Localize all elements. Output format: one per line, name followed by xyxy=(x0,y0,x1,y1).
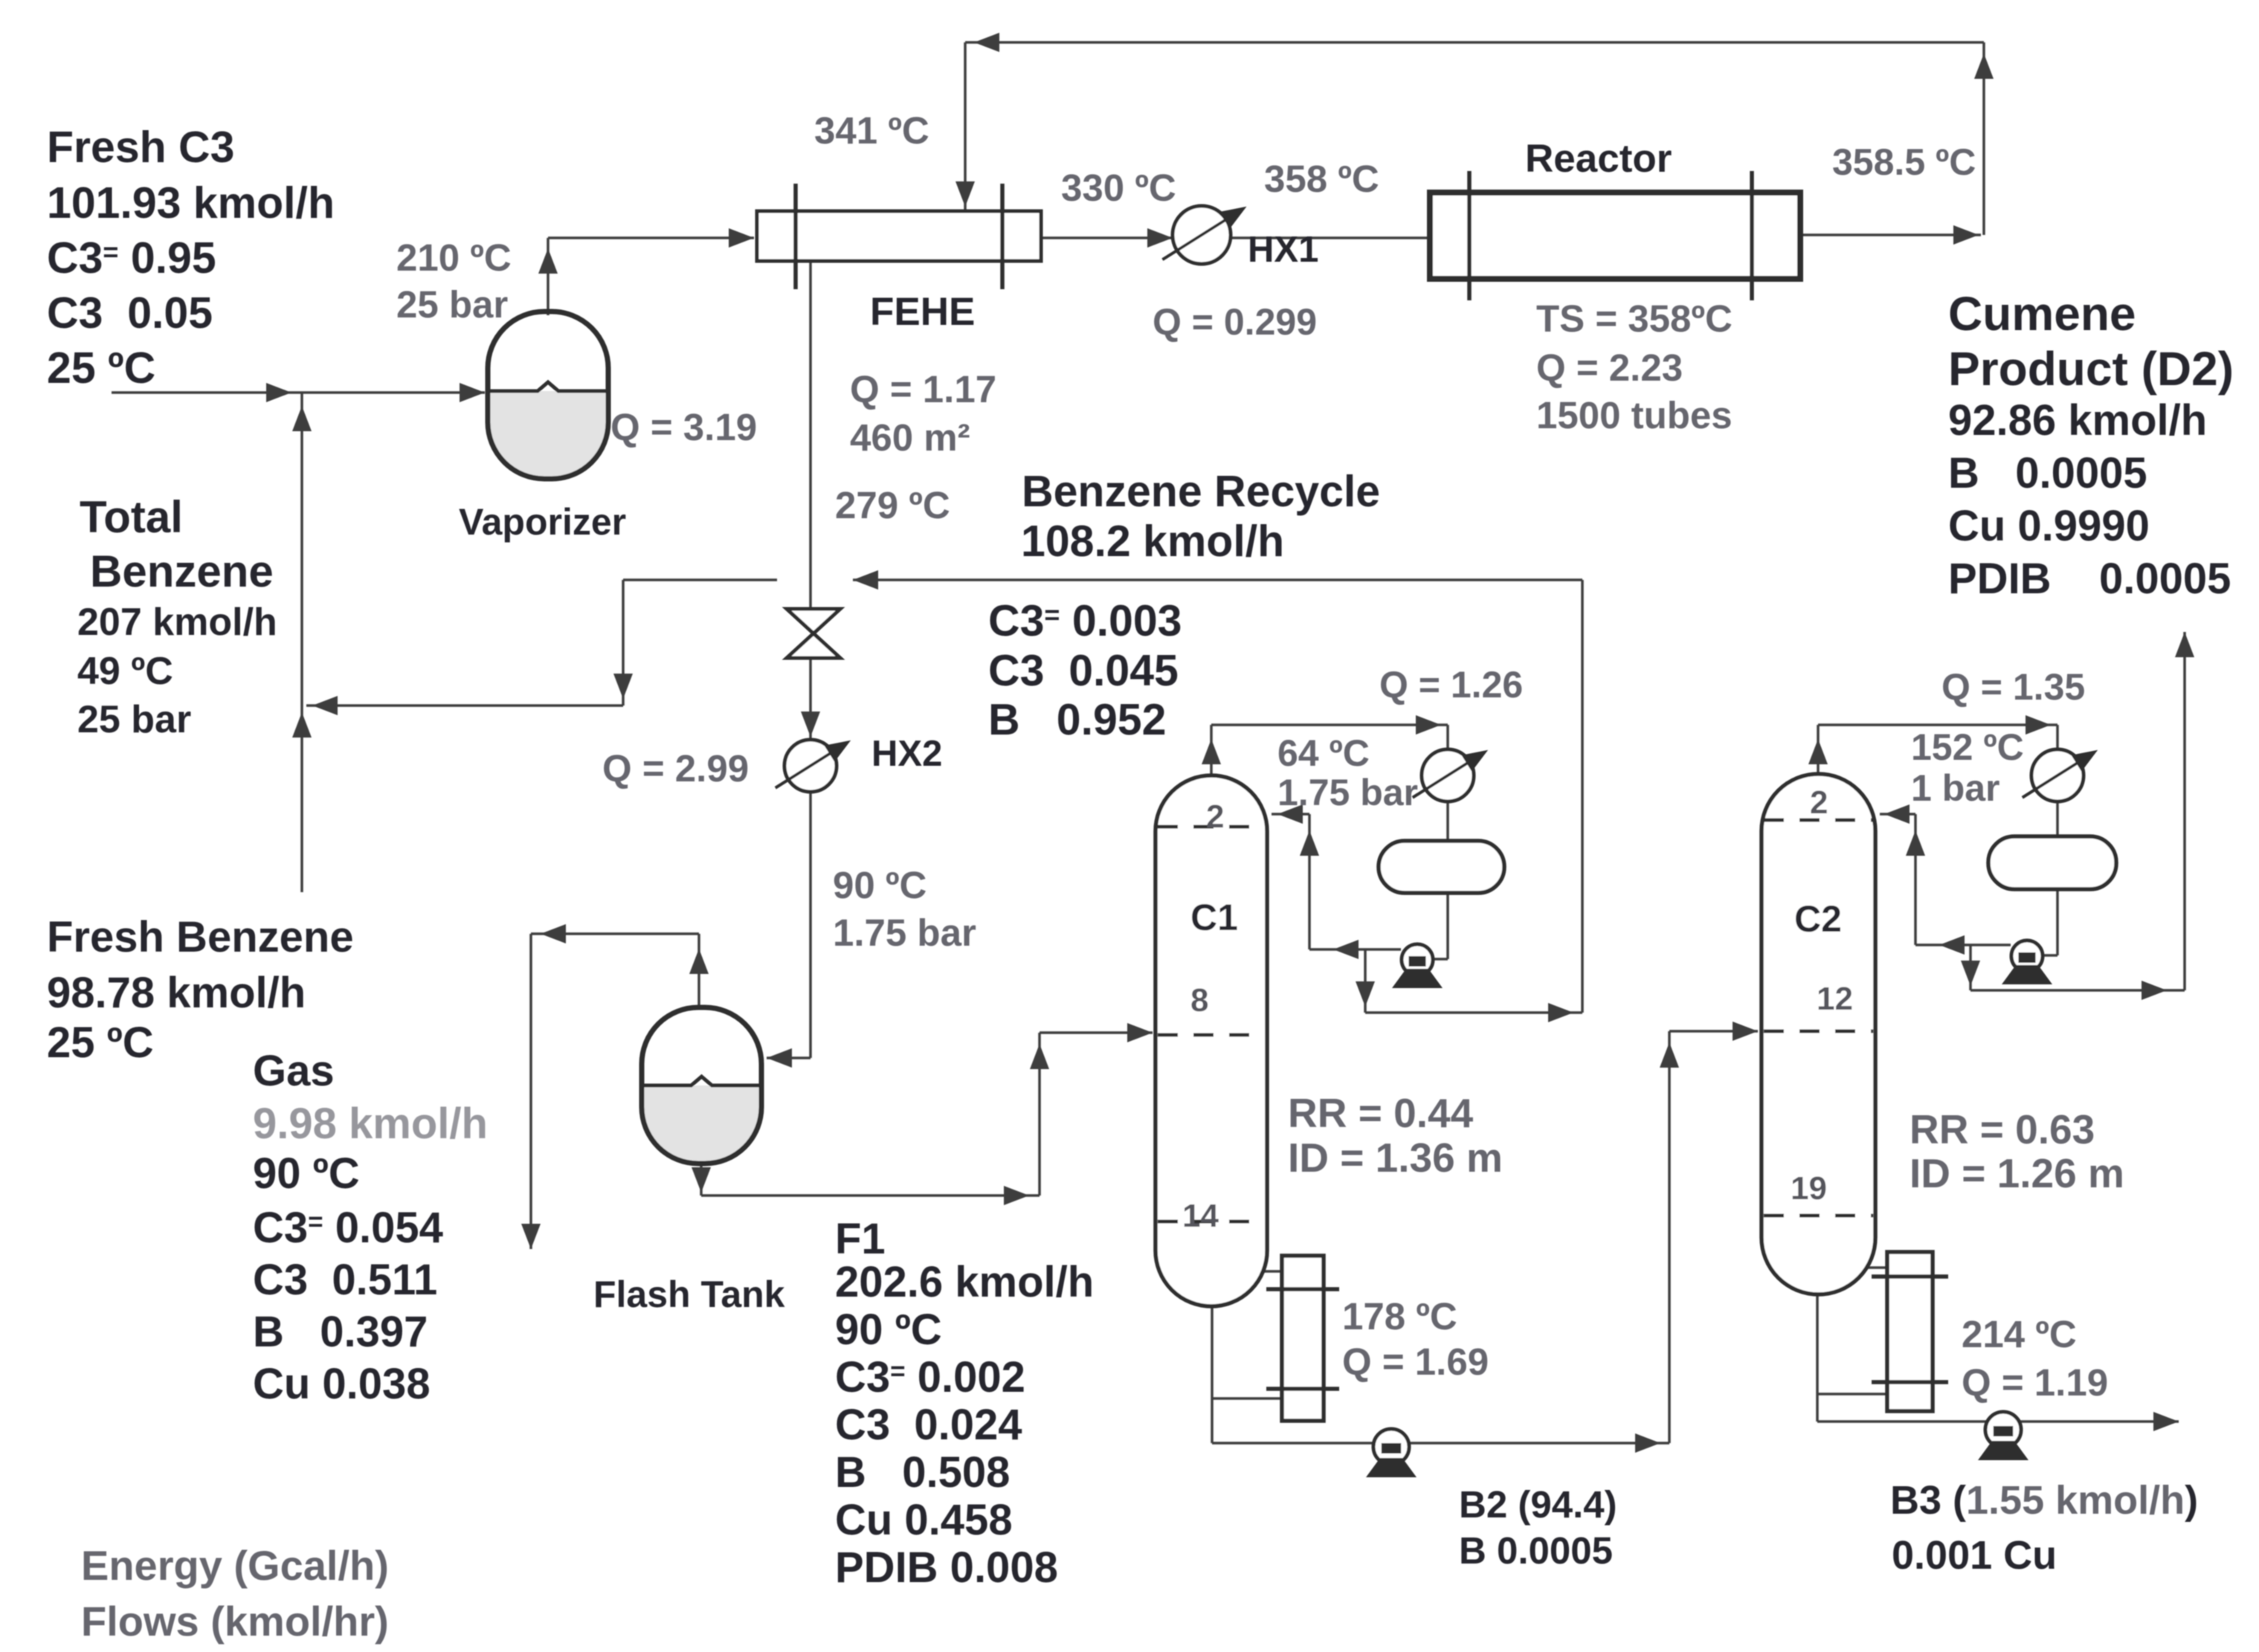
svg-text:1 bar: 1 bar xyxy=(1911,767,2000,809)
svg-text:202.6 kmol/h: 202.6 kmol/h xyxy=(835,1258,1094,1306)
svg-text:92.86 kmol/h: 92.86 kmol/h xyxy=(1948,396,2207,445)
svg-text:25 bar: 25 bar xyxy=(77,698,191,741)
svg-text:Fresh C3: Fresh C3 xyxy=(47,123,234,172)
svg-text:2: 2 xyxy=(1810,784,1828,821)
svg-text:152 ºC: 152 ºC xyxy=(1911,726,2024,768)
svg-text:98.78 kmol/h: 98.78 kmol/h xyxy=(47,969,306,1017)
svg-text:Flows (kmol/hr): Flows (kmol/hr) xyxy=(81,1598,389,1645)
svg-text:C3 0.024: C3 0.024 xyxy=(835,1401,1022,1449)
svg-text:9.98 kmol/h: 9.98 kmol/h xyxy=(253,1100,488,1148)
svg-text:FEHE: FEHE xyxy=(870,290,975,334)
svg-text:RR = 0.63: RR = 0.63 xyxy=(1910,1106,2095,1152)
svg-text:460 m²: 460 m² xyxy=(850,416,970,459)
svg-text:64 ºC: 64 ºC xyxy=(1277,732,1370,774)
svg-text:RR = 0.44: RR = 0.44 xyxy=(1288,1090,1474,1136)
svg-text:108.2 kmol/h: 108.2 kmol/h xyxy=(1021,517,1284,566)
svg-text:Q = 1.17: Q = 1.17 xyxy=(850,368,996,410)
svg-text:1500 tubes: 1500 tubes xyxy=(1536,394,1733,436)
svg-text:B 0.397: B 0.397 xyxy=(253,1308,428,1356)
svg-text:B 0.952: B 0.952 xyxy=(988,695,1166,744)
svg-text:Benzene Recycle: Benzene Recycle xyxy=(1022,467,1380,516)
svg-text:207 kmol/h: 207 kmol/h xyxy=(77,601,277,644)
svg-text:ID = 1.26 m: ID = 1.26 m xyxy=(1910,1150,2124,1196)
svg-text:Q = 2.23: Q = 2.23 xyxy=(1536,346,1683,389)
svg-text:Q = 3.19: Q = 3.19 xyxy=(610,406,757,448)
svg-text:12: 12 xyxy=(1817,981,1853,1017)
svg-text:279 ºC: 279 ºC xyxy=(835,484,950,526)
svg-text:B2 (94.4): B2 (94.4) xyxy=(1459,1483,1617,1526)
svg-text:Vaporizer: Vaporizer xyxy=(459,501,626,543)
svg-text:HX2: HX2 xyxy=(871,734,942,774)
svg-text:B 0.0005: B 0.0005 xyxy=(1459,1529,1613,1572)
svg-text:Total: Total xyxy=(80,492,183,542)
svg-text:25 ºC: 25 ºC xyxy=(47,343,155,393)
svg-text:F1: F1 xyxy=(835,1215,886,1263)
svg-text:1.75 bar: 1.75 bar xyxy=(833,911,976,954)
svg-text:341 ºC: 341 ºC xyxy=(814,109,929,152)
svg-text:101.93 kmol/h: 101.93 kmol/h xyxy=(47,178,335,228)
svg-text:90 ºC: 90 ºC xyxy=(253,1149,360,1198)
svg-text:Q = 0.299: Q = 0.299 xyxy=(1153,301,1317,343)
svg-text:TS = 358ºC: TS = 358ºC xyxy=(1536,297,1733,340)
svg-text:1.75 bar: 1.75 bar xyxy=(1277,772,1418,813)
svg-text:0.001 Cu: 0.001 Cu xyxy=(1892,1533,2057,1578)
svg-text:ID = 1.36 m: ID = 1.36 m xyxy=(1288,1135,1503,1181)
svg-text:90 ºC: 90 ºC xyxy=(835,1306,942,1354)
svg-text:Product (D2): Product (D2) xyxy=(1948,342,2234,396)
svg-text:C2: C2 xyxy=(1794,898,1842,940)
svg-text:Flash Tank: Flash Tank xyxy=(593,1274,785,1315)
svg-text:Q = 1.26: Q = 1.26 xyxy=(1379,664,1523,706)
svg-text:Energy (Gcal/h): Energy (Gcal/h) xyxy=(81,1542,389,1589)
svg-text:2: 2 xyxy=(1206,798,1224,835)
svg-text:Cu 0.458: Cu 0.458 xyxy=(835,1496,1013,1544)
svg-text:Reactor: Reactor xyxy=(1525,137,1672,181)
svg-text:Cu 0.038: Cu 0.038 xyxy=(253,1360,431,1408)
svg-text:Cumene: Cumene xyxy=(1948,287,2136,341)
svg-text:Q = 1.69: Q = 1.69 xyxy=(1342,1340,1489,1383)
svg-text:Q = 1.19: Q = 1.19 xyxy=(1962,1361,2108,1404)
svg-text:PDIB 0.0005: PDIB 0.0005 xyxy=(1948,555,2231,603)
svg-text:8: 8 xyxy=(1190,982,1208,1019)
svg-text:HX1: HX1 xyxy=(1248,230,1318,270)
svg-text:PDIB 0.008: PDIB 0.008 xyxy=(835,1543,1058,1592)
svg-text:330 ºC: 330 ºC xyxy=(1061,167,1176,209)
svg-text:210 ºC: 210 ºC xyxy=(396,236,512,279)
svg-text:C3= 0.003: C3= 0.003 xyxy=(988,596,1182,645)
svg-text:C3 0.05: C3 0.05 xyxy=(47,288,213,338)
svg-text:Q = 2.99: Q = 2.99 xyxy=(602,747,749,790)
svg-text:C1: C1 xyxy=(1190,897,1238,938)
svg-text:Fresh Benzene: Fresh Benzene xyxy=(47,913,354,961)
svg-text:C3= 0.054: C3= 0.054 xyxy=(253,1204,443,1252)
svg-text:178 ºC: 178 ºC xyxy=(1342,1295,1457,1338)
svg-text:B 0.0005: B 0.0005 xyxy=(1948,449,2147,497)
svg-text:25 bar: 25 bar xyxy=(396,283,508,326)
svg-text:B3 (1.55 kmol/h): B3 (1.55 kmol/h) xyxy=(1890,1478,2198,1523)
svg-text:25 ºC: 25 ºC xyxy=(47,1019,154,1067)
svg-text:C3 0.511: C3 0.511 xyxy=(253,1256,437,1304)
svg-text:358 ºC: 358 ºC xyxy=(1264,158,1379,200)
svg-text:90 ºC: 90 ºC xyxy=(833,864,927,906)
svg-text:19: 19 xyxy=(1791,1170,1827,1207)
svg-text:Benzene: Benzene xyxy=(90,546,274,596)
svg-text:C3 0.045: C3 0.045 xyxy=(988,646,1179,695)
svg-text:Gas: Gas xyxy=(253,1047,335,1095)
svg-text:C3= 0.95: C3= 0.95 xyxy=(47,233,216,283)
svg-text:Q = 1.35: Q = 1.35 xyxy=(1941,666,2085,708)
svg-text:14: 14 xyxy=(1182,1198,1219,1234)
svg-text:214 ºC: 214 ºC xyxy=(1962,1313,2077,1355)
svg-text:C3= 0.002: C3= 0.002 xyxy=(835,1353,1025,1401)
svg-text:358.5 ºC: 358.5 ºC xyxy=(1832,141,1976,183)
svg-text:49 ºC: 49 ºC xyxy=(77,650,173,693)
svg-text:B 0.508: B 0.508 xyxy=(835,1448,1010,1497)
svg-text:Cu 0.9990: Cu 0.9990 xyxy=(1948,502,2150,550)
